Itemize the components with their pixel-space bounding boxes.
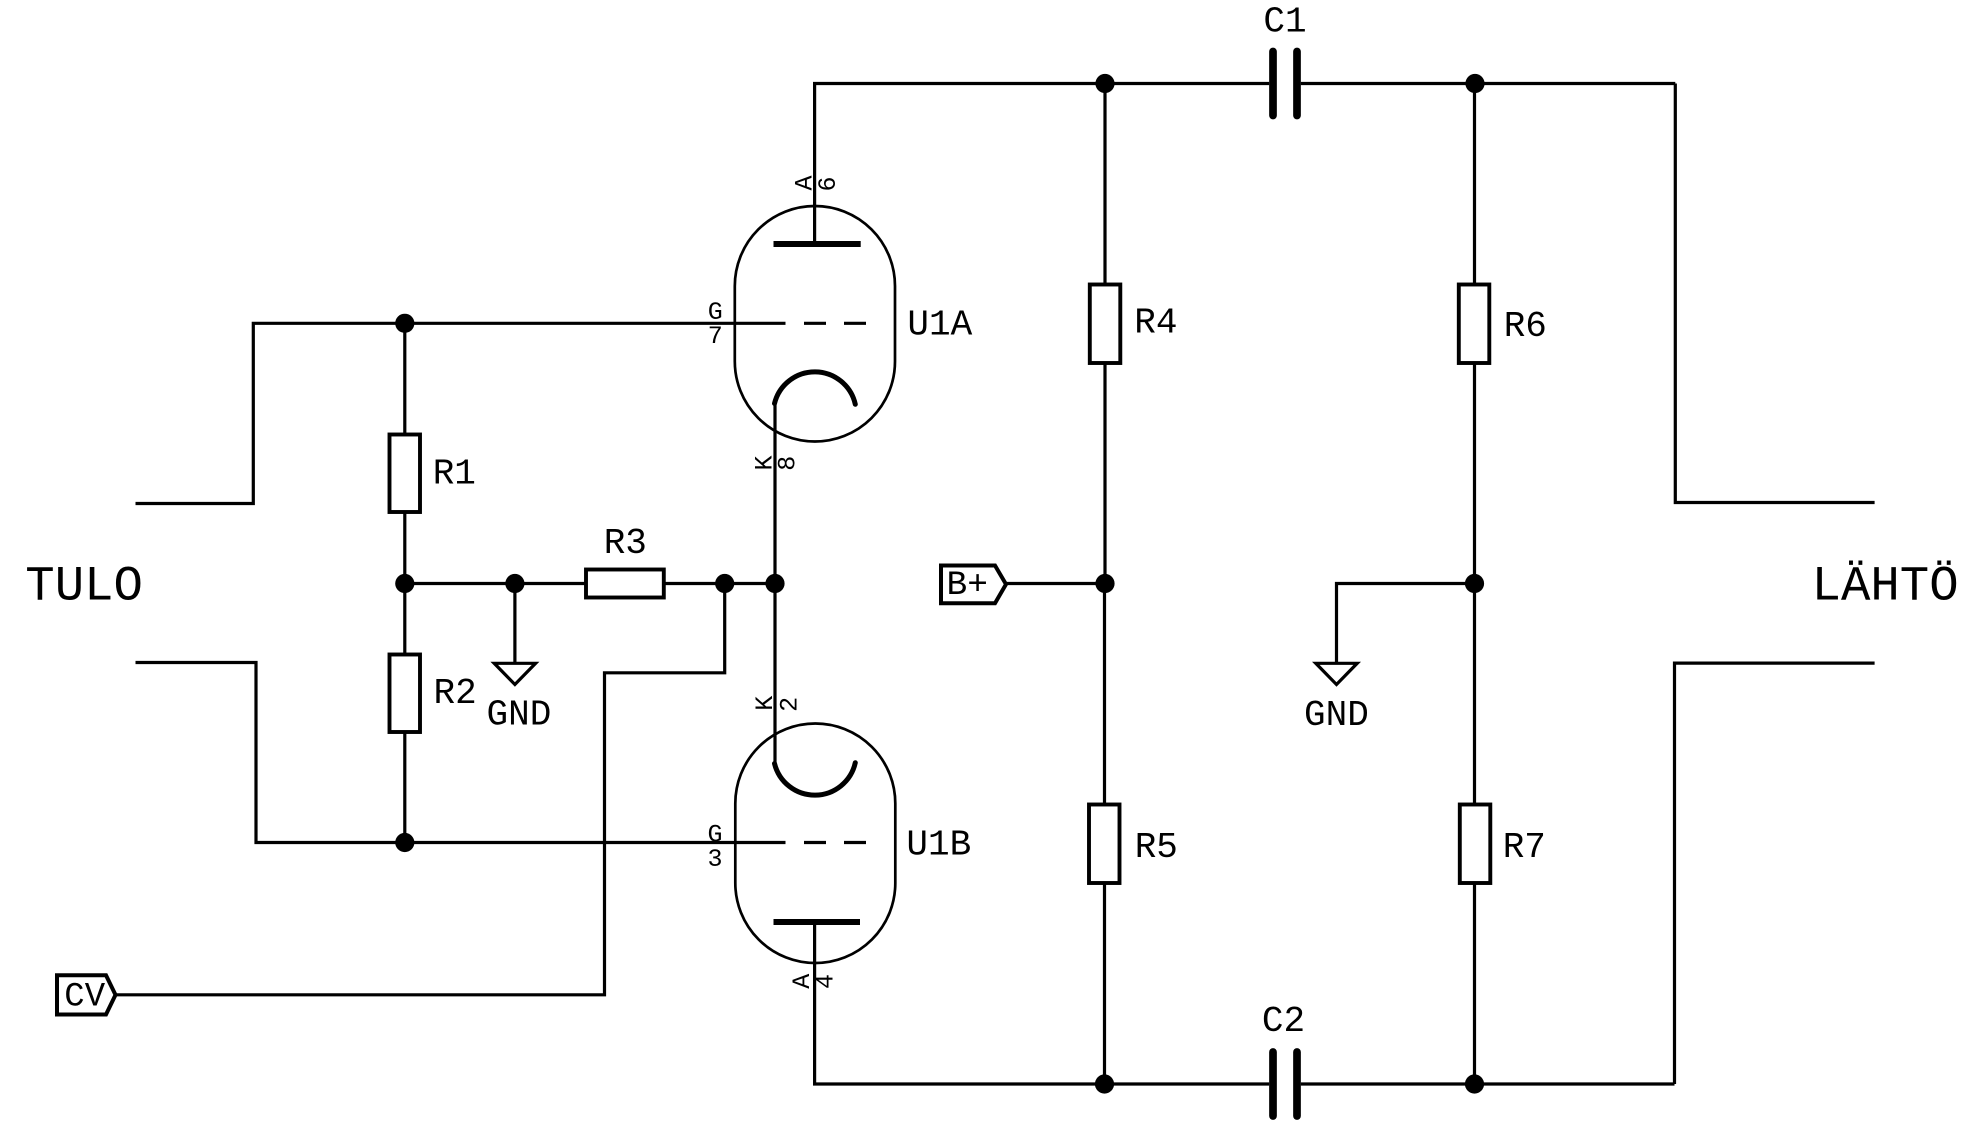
wire cathode line K8 to K2 bbox=[773, 404, 776, 764]
svg-text:R1: R1 bbox=[433, 454, 476, 495]
svg-text:GND: GND bbox=[1304, 695, 1369, 736]
node right rail mid junction bbox=[1465, 574, 1484, 593]
svg-text:TULO: TULO bbox=[25, 559, 143, 615]
node A (input upper junction) bbox=[395, 314, 414, 333]
wire R6 bottom lead bbox=[1473, 363, 1476, 584]
U1B anode plate bbox=[774, 919, 861, 925]
wire R1 bottom lead bbox=[403, 512, 406, 584]
svg-text:GND: GND bbox=[487, 695, 552, 736]
wire R6 top lead bbox=[1473, 84, 1476, 285]
ground left bbox=[494, 663, 535, 684]
svg-text:R4: R4 bbox=[1134, 303, 1177, 344]
wire lower output stub bbox=[1675, 663, 1875, 1084]
svg-text:R7: R7 bbox=[1503, 827, 1546, 868]
svg-text:R5: R5 bbox=[1135, 827, 1178, 868]
U1A grid dashes bbox=[804, 322, 826, 325]
node top rail R6 bbox=[1465, 74, 1484, 93]
svg-text:7: 7 bbox=[708, 322, 723, 351]
svg-text:R3: R3 bbox=[604, 523, 647, 564]
svg-text:LÄHTÖ: LÄHTÖ bbox=[1812, 559, 1959, 615]
svg-text:6: 6 bbox=[814, 176, 843, 191]
svg-text:C2: C2 bbox=[1262, 1001, 1305, 1042]
node top rail R4 bbox=[1095, 74, 1114, 93]
sheet pin B+ bbox=[941, 566, 1006, 604]
wire bias node right segment bbox=[664, 582, 775, 585]
tube U1A envelope bbox=[735, 206, 895, 442]
capacitor C2 bbox=[1269, 1052, 1277, 1116]
ground right bbox=[1316, 663, 1357, 684]
svg-text:B+: B+ bbox=[947, 566, 988, 605]
wire R2 bottom lead bbox=[403, 732, 406, 843]
wire R7 top lead bbox=[1473, 584, 1476, 805]
tube U1B envelope bbox=[735, 724, 895, 964]
resistor R5 bbox=[1089, 805, 1120, 884]
U1A cathode arc bbox=[775, 372, 856, 404]
wire R5 bottom lead bbox=[1103, 883, 1106, 1084]
wire R4 top lead bbox=[1103, 84, 1106, 285]
capacitor C1 bbox=[1269, 52, 1277, 116]
node B+ junction bbox=[1095, 574, 1114, 593]
wire B+ lead bbox=[1006, 582, 1105, 585]
node bottom rail R7 bbox=[1465, 1074, 1484, 1093]
wire R1 top lead bbox=[403, 323, 406, 434]
wire R7 bottom lead bbox=[1473, 883, 1476, 1084]
wire R2 top lead bbox=[403, 584, 406, 655]
wire CV net bbox=[116, 584, 725, 995]
svg-text:R2: R2 bbox=[434, 673, 477, 714]
sheet pin CV bbox=[57, 975, 116, 1014]
wire upper input stub to U1A grid bbox=[136, 323, 786, 503]
resistor R7 bbox=[1460, 805, 1491, 884]
node bottom rail R5 bbox=[1095, 1074, 1114, 1093]
svg-text:U1B: U1B bbox=[906, 825, 971, 866]
svg-text:3: 3 bbox=[707, 845, 722, 874]
resistor R1 bbox=[390, 435, 421, 513]
U1B grid dashes bbox=[804, 841, 826, 844]
wire top rail (C1 right plate to output corner) bbox=[1301, 82, 1676, 85]
svg-text:U1A: U1A bbox=[907, 305, 972, 346]
U1A anode plate bbox=[774, 241, 861, 247]
resistor R3 bbox=[586, 570, 664, 598]
wire lower input stub to U1B grid bbox=[136, 663, 786, 843]
wire R4 bottom lead bbox=[1103, 363, 1106, 584]
resistor R4 bbox=[1090, 285, 1121, 364]
wire R5 top lead bbox=[1103, 584, 1106, 805]
svg-text:C1: C1 bbox=[1263, 2, 1306, 43]
wire bottom rail (C2 right plate to output corner) bbox=[1301, 1082, 1675, 1085]
wire GND tap right bbox=[1337, 584, 1475, 664]
wire bias node left segment bbox=[405, 582, 586, 585]
wire bottom rail (U1B anode to C2 left plate) bbox=[815, 922, 1270, 1084]
svg-text:2: 2 bbox=[776, 697, 805, 712]
resistor R6 bbox=[1459, 285, 1490, 364]
wire top rail (U1A anode to C1 left plate) bbox=[815, 84, 1270, 245]
wire upper output stub bbox=[1675, 84, 1874, 503]
svg-text:CV: CV bbox=[64, 978, 105, 1016]
svg-text:8: 8 bbox=[773, 456, 802, 471]
node CV junction bbox=[715, 574, 734, 593]
node cathode junction bbox=[765, 574, 784, 593]
U1B cathode arc bbox=[775, 763, 856, 795]
node B (input lower junction) bbox=[395, 833, 414, 852]
node bias (R1/R2/R3 junction) bbox=[395, 574, 414, 593]
node GND tap junction bbox=[505, 574, 524, 593]
svg-text:R6: R6 bbox=[1504, 306, 1547, 347]
wire GND lead left bbox=[513, 584, 516, 664]
resistor R2 bbox=[390, 655, 421, 733]
